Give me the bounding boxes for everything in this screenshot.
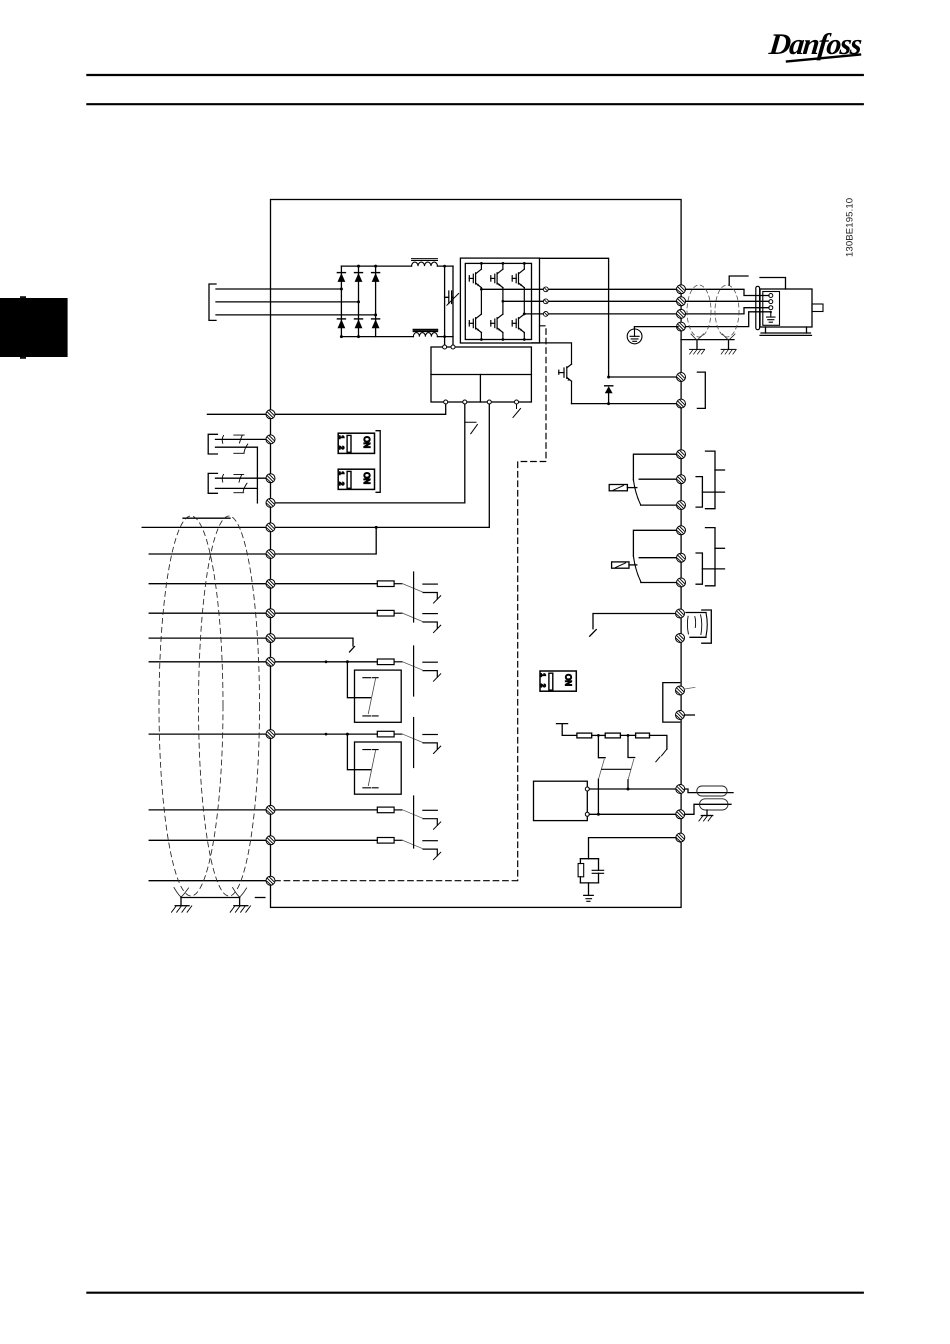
start switch bracket 1 [208,434,266,454]
motor terminal circles [769,294,773,298]
drive enclosure [271,200,682,908]
DC+ bus [341,265,453,267]
shield drain link [181,897,240,899]
diode D5 [355,318,363,320]
bus cable shield ellipse B [700,799,729,810]
igbt W-bot [512,314,524,332]
shield clamp bus [681,339,734,341]
header rule 2 [87,103,862,105]
igbt V-top [491,269,503,287]
shield clamp 2 [721,334,736,354]
relay 1 terminal 01 [677,450,686,459]
interlock wire [590,614,676,637]
motor shaft [812,304,823,312]
bus term switch 1 [597,734,605,816]
motor cable wire W [686,308,769,314]
motor terminal box [763,292,780,326]
current sensor W [543,312,548,317]
motor cable wire U [686,289,769,295]
wire 10V to terminal 50 [488,404,490,527]
relay 1 terminal 03 [677,501,686,510]
left terminal 55 [266,876,275,885]
chassis bar inputs 53-54 [413,796,415,848]
motor terminal 98 [677,309,686,318]
relay 1 terminal 02 [677,475,686,484]
wire L2 [216,301,359,303]
bus terminal 68 [676,785,685,794]
left terminal 12 [266,410,275,419]
left terminal 53 [266,805,275,814]
diode D1 [337,272,345,274]
5V T symbol [557,724,577,736]
brake terminal 82 [677,399,686,408]
rectifier legs [337,265,379,339]
motor cable wire V [686,300,769,302]
bus resistor 1 [577,733,592,738]
diode D3 [372,272,380,274]
igbt W-top [512,269,524,287]
DC- bus [341,336,453,338]
inverter inner box [465,263,531,339]
inrush switch at SMPS [513,404,521,417]
wire L1 [216,288,341,290]
analog input 54 line [149,839,377,841]
digital input 27 line [149,638,354,652]
left terminal 54 [266,836,275,845]
motor terminal 99 PE [677,322,686,331]
bus cable shield ellipse A [697,786,727,796]
relay 1 coil [609,485,627,491]
thermistor sketch [686,613,707,638]
control cable shield ellipse 2 [199,516,260,896]
shield drain 1 [172,888,192,913]
motor cable shield ellipse 2 [715,285,739,337]
bus terminal 69 [676,810,685,819]
relay 1 outer bracket [706,451,716,509]
thermistor terminal B [676,634,685,643]
left terminal 54a [266,550,275,559]
left terminal 29 [266,657,275,666]
bus terminal 61 [676,833,685,842]
igbt U-bot [469,314,481,332]
current sensor V [543,299,548,304]
shield clamp 1 [690,334,705,354]
digital input 19 line [149,612,377,614]
bus shield ground [699,810,713,821]
relay 2 coil [612,562,629,568]
SMPS box [431,345,531,404]
motor base [760,333,812,335]
shield stub line [183,517,230,519]
relay 2 terminal 04 [677,526,686,535]
thermistor terminal A [676,609,685,618]
left terminal 50 [266,523,275,532]
motor terminal 96 [677,285,686,294]
brake emitter line to terminal 82 [572,403,677,405]
thermistor bracket [702,610,712,643]
diode D4 [337,318,345,320]
DC bus capacitor [445,291,459,305]
left terminal 33 [266,730,275,739]
left terminal 27 [266,474,275,483]
left terminal 19 [266,609,275,618]
phase V line [503,300,676,302]
chassis bar input 33 [413,718,415,768]
relay 1 [609,451,724,509]
junction dots rectifier [340,265,377,339]
switch on 24V wire [465,422,478,434]
mains input bracket [209,284,216,320]
left terminal 18b [266,579,275,588]
motor internal earth [767,312,775,322]
motor feet [766,327,807,333]
bus resistor 2 [592,734,606,736]
shield over-line at motor [729,276,785,289]
relay 2 terminal 06 [677,578,686,587]
aux pointer line [685,687,696,689]
DC link inductor top [412,259,438,266]
left terminal 13 [266,498,275,507]
brake wire to terminal 81 [609,376,676,378]
inverter junction dots [480,262,526,341]
mode box 27 [325,733,402,795]
dashed control boundary [272,326,546,881]
relay 2 [612,528,725,586]
chassis bar input 29 [413,646,415,696]
relay 2 inner bracket [696,553,702,584]
digital input 33 line [149,733,377,735]
wire switches to terminal 13 [256,447,258,503]
shield drain 2 [230,888,250,913]
brake bracket [697,372,705,408]
bus wire A 68 [589,788,676,790]
mode box 29 [325,660,402,722]
digital input 18 line [149,583,377,585]
brake DC+ feed [540,258,609,377]
bus term switch 2 [627,734,635,791]
diode D2 [355,272,363,274]
inverter column wires [481,263,524,339]
wire 24V to terminal 13 [275,404,465,503]
RC filter on 61 [578,838,676,902]
diode D6 [372,318,380,320]
motor terminal 97 [677,297,686,306]
dip bracket [376,431,380,493]
Danfoss logo [767,27,864,61]
control cable shield ellipse 1 [159,516,223,896]
wire L3 [216,314,376,316]
aux stub line [685,714,695,716]
junction dot t54-line [375,526,378,529]
brake chopper diode [605,386,613,404]
aux terminal B [676,711,685,720]
bus resistor 3 [620,734,635,736]
dip switch A54 [337,469,374,489]
chapter tab [0,296,68,359]
dip switch A53 [337,433,374,453]
motor body [760,289,812,327]
shield stub to chassis [255,897,265,899]
common 55 line [149,880,268,882]
DC rail vertical + [444,266,446,347]
start switch bracket 2 [208,473,266,493]
wire terminal 54 [149,527,376,554]
switch coupling line [602,768,631,770]
fieldbus box [534,781,590,820]
digital input 29 line [149,661,377,663]
motor flange [756,286,760,329]
svg-text:130BE195.10: 130BE195.10 [845,198,856,257]
chassis bar inputs 18-19 [413,572,415,622]
header rule 1 [87,74,862,76]
motor cable wire PE [686,312,770,327]
inverter outer box [460,258,539,343]
phase W line [524,313,676,315]
brake IGBT [532,343,572,404]
motor cable shield ellipse 1 [687,285,711,337]
DC link inductor bottom [413,330,437,337]
footer rule [87,1292,862,1294]
bus wire B 69 [589,813,676,815]
left terminal 18 [266,435,275,444]
DC rail vertical - [452,266,454,347]
relay 2 terminal 05 [677,553,686,562]
brake terminal 81 [677,373,686,382]
current sensor U [543,287,548,292]
bus wire to open switch [650,735,667,749]
igbt U-top [469,269,481,287]
igbt V-bot [491,314,503,332]
bus cable wire B [685,804,731,814]
motor [756,286,823,335]
aux terminal A [676,686,685,695]
aux bracket box [663,683,680,723]
relay 2 outer bracket [706,528,716,586]
left terminal 32 [266,634,275,643]
phase U line [481,288,676,290]
control common wire t55 top [142,526,489,528]
bus cable wire A [685,789,733,793]
analog input 53 line [149,809,377,811]
relay 1 inner bracket [696,477,702,508]
bus termination dip S801 [539,671,576,691]
PE earth circle [627,327,678,344]
wire 24V out to terminal 12 [207,404,445,414]
